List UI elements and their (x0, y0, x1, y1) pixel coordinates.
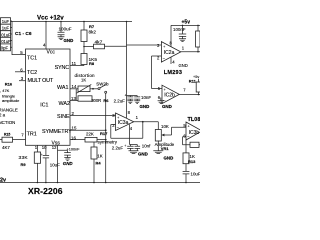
svg-text:1K: 1K (81, 77, 86, 82)
svg-text:SYMMETRY: SYMMETRY (42, 129, 72, 135)
svg-text:1K: 1K (190, 154, 195, 159)
svg-text:10: 10 (42, 145, 47, 150)
svg-text:symmetry: symmetry (98, 139, 118, 144)
svg-text:+100nF: +100nF (67, 148, 81, 152)
svg-text:SYNC: SYNC (55, 65, 70, 71)
svg-text:+: + (41, 153, 43, 157)
svg-text:33K: 33K (19, 155, 29, 161)
svg-text:TC2: TC2 (27, 70, 37, 76)
svg-text:WA2: WA2 (59, 101, 70, 107)
svg-text:R16: R16 (5, 81, 13, 86)
svg-text:C1 - C6: C1 - C6 (15, 31, 32, 37)
svg-text:Vcc: Vcc (47, 50, 56, 56)
svg-text:MULT OUT: MULT OUT (28, 78, 54, 84)
svg-text:2v: 2v (0, 178, 6, 184)
svg-text:LM293: LM293 (164, 70, 182, 76)
svg-text:GND: GND (162, 104, 172, 109)
svg-text:IC3a: IC3a (118, 120, 129, 126)
svg-text:10nf: 10nf (142, 144, 151, 149)
svg-text:10nF: 10nF (141, 95, 151, 100)
svg-text:1K: 1K (97, 154, 102, 159)
svg-text:SW2b: SW2b (96, 81, 109, 86)
svg-text:+: + (125, 94, 127, 98)
svg-text:0pF: 0pF (1, 46, 9, 51)
svg-text:R17: R17 (100, 131, 108, 136)
svg-text:R4: R4 (96, 161, 102, 166)
svg-text:13: 13 (71, 96, 76, 101)
svg-text:10uF: 10uF (50, 162, 60, 167)
svg-text:GND: GND (164, 156, 174, 161)
svg-text:GND: GND (64, 38, 74, 43)
svg-text:IC2b: IC2b (164, 93, 175, 99)
svg-text:10uF: 10uF (191, 171, 201, 176)
svg-text:GND: GND (63, 161, 74, 166)
svg-text:XR-2206: XR-2206 (28, 186, 63, 196)
svg-text:11: 11 (72, 61, 77, 66)
svg-text:TC1: TC1 (27, 56, 37, 62)
svg-text:2.2uF: 2.2uF (112, 145, 124, 150)
svg-text:14: 14 (72, 84, 77, 89)
svg-text:300R: 300R (91, 98, 101, 103)
svg-text:R9: R9 (21, 162, 27, 167)
svg-text:GND: GND (140, 104, 150, 109)
svg-text:IC2a: IC2a (164, 50, 175, 56)
svg-text:+: + (124, 144, 126, 148)
svg-text:GND: GND (138, 152, 148, 157)
svg-text:IC1: IC1 (40, 102, 48, 108)
svg-text:WA1: WA1 (57, 85, 68, 91)
svg-text:4K7: 4K7 (2, 145, 10, 150)
svg-text:VR1: VR1 (161, 146, 170, 151)
svg-text:4k7: 4k7 (95, 39, 103, 45)
svg-text:R8: R8 (89, 61, 95, 66)
svg-text:22K: 22K (86, 132, 94, 137)
svg-text:1uF: 1uF (2, 26, 10, 31)
svg-text:8k2: 8k2 (89, 30, 97, 35)
svg-text:100uF: 100uF (59, 26, 72, 31)
svg-text:R15: R15 (4, 133, 10, 137)
svg-text:amplitude: amplitude (2, 98, 20, 103)
svg-text:01uF: 01uF (1, 39, 11, 44)
svg-text:16: 16 (71, 136, 76, 141)
svg-text:GND: GND (179, 63, 188, 68)
svg-text:NCTION: NCTION (0, 120, 15, 125)
svg-text:R11: R11 (189, 78, 197, 83)
svg-text:100nF: 100nF (173, 27, 186, 32)
svg-text:R7: R7 (89, 24, 95, 29)
svg-text:12: 12 (52, 145, 57, 150)
svg-text:Vcc +12v: Vcc +12v (37, 15, 64, 22)
svg-text:01uF: 01uF (1, 32, 11, 37)
svg-text:R6: R6 (103, 98, 109, 103)
svg-text:15: 15 (72, 126, 77, 131)
svg-text:IC3b: IC3b (189, 130, 200, 136)
svg-text:TR1: TR1 (27, 132, 37, 138)
svg-text:10K: 10K (161, 124, 169, 129)
svg-text:2.2uF: 2.2uF (114, 99, 126, 104)
svg-text:2 a: 2 a (0, 112, 6, 117)
svg-text:TL084: TL084 (188, 117, 201, 123)
svg-text:R13: R13 (188, 159, 196, 164)
svg-text:1uF: 1uF (2, 19, 10, 24)
svg-text:SINE: SINE (57, 114, 70, 120)
